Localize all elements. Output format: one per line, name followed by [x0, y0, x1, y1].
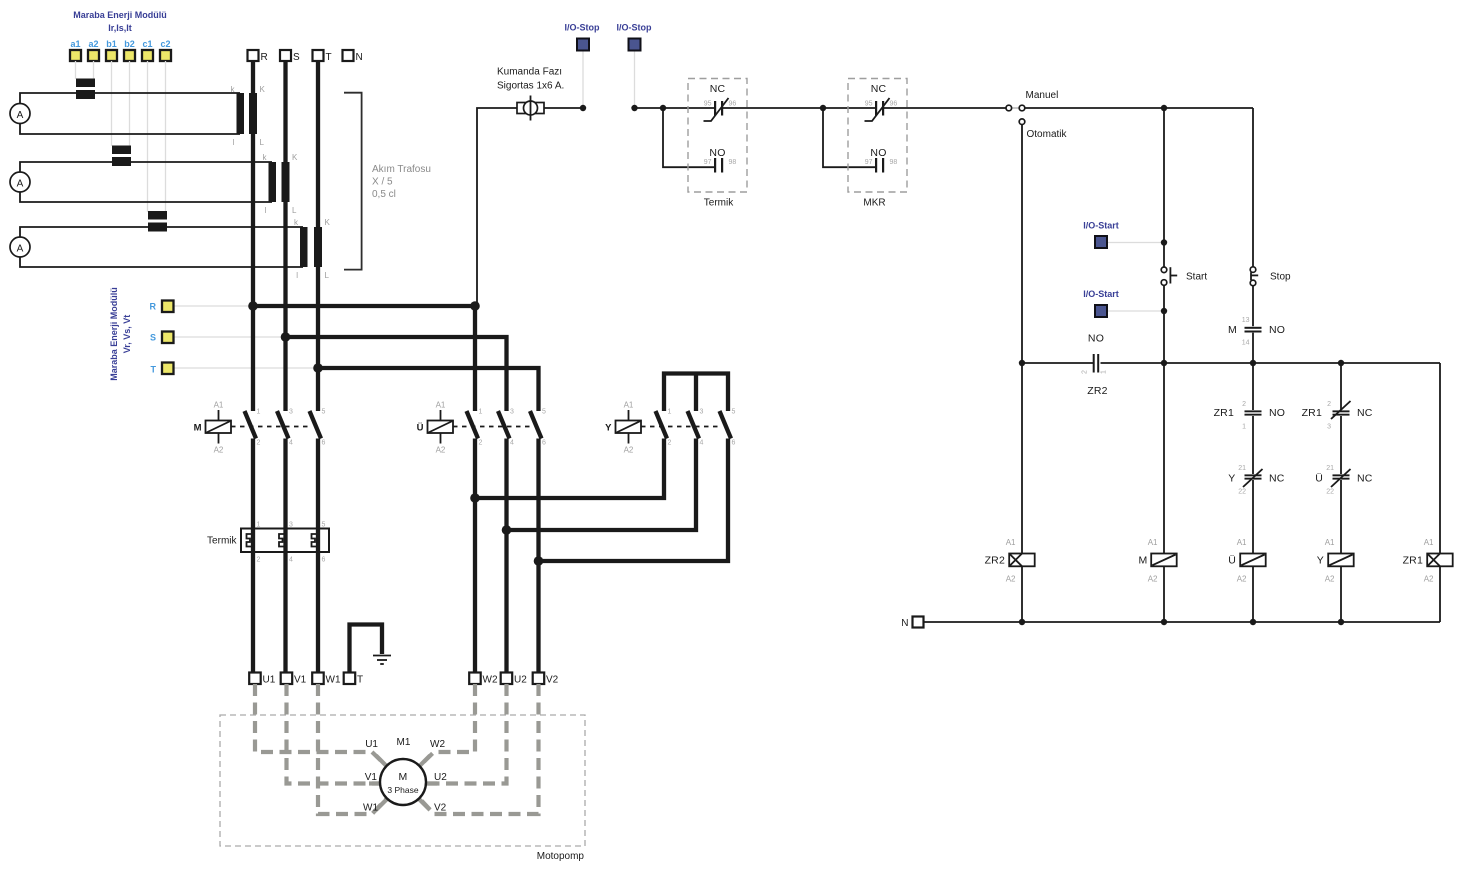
sense wire c2 — [165, 61, 167, 212]
svg-text:A2: A2 — [1237, 575, 1247, 584]
svg-text:A2: A2 — [436, 446, 446, 455]
svg-text:6: 6 — [732, 440, 736, 447]
svg-text:95: 95 — [865, 101, 873, 108]
svg-text:21: 21 — [1238, 465, 1246, 472]
svg-text:2: 2 — [257, 557, 261, 564]
node neutral junctions — [1019, 619, 1025, 625]
svg-text:I/O-Stop: I/O-Stop — [617, 23, 652, 33]
svg-text:0,5 cl: 0,5 cl — [372, 189, 396, 200]
terminal a1 — [70, 50, 81, 61]
terminal V1 — [281, 673, 293, 685]
wire otomatik down — [1021, 125, 1023, 364]
svg-text:6: 6 — [322, 440, 326, 447]
svg-text:3: 3 — [510, 409, 514, 416]
terminal U1 — [249, 673, 261, 685]
motor lead W1 — [318, 684, 387, 814]
motor M1 3 phase — [380, 759, 426, 805]
svg-text:T: T — [357, 675, 363, 686]
svg-text:1: 1 — [257, 409, 261, 416]
CT pickup bars loop2 — [112, 146, 131, 155]
svg-text:2: 2 — [668, 440, 672, 447]
terminal U2 — [501, 673, 513, 685]
svg-text:Manuel: Manuel — [1026, 90, 1059, 101]
node bus junctions — [1019, 360, 1025, 366]
svg-text:6: 6 — [542, 440, 546, 447]
node start branch top — [1161, 105, 1167, 111]
bracket akim trafosu — [344, 93, 362, 270]
svg-text:14: 14 — [1242, 340, 1250, 347]
mkr dashed box — [848, 79, 907, 193]
svg-text:2: 2 — [257, 440, 261, 447]
wire feed R to U contactor — [253, 306, 475, 411]
svg-text:V1: V1 — [365, 772, 378, 783]
svg-text:4: 4 — [289, 557, 293, 564]
terminal c2 — [160, 50, 171, 61]
node W2 link — [470, 493, 480, 503]
contactor Y pole 1-2 — [656, 411, 668, 439]
svg-text:3: 3 — [289, 409, 293, 416]
wire branch to termik NO — [663, 108, 714, 167]
svg-text:A1: A1 — [436, 401, 446, 410]
wire branch to mkr NO — [823, 108, 875, 167]
svg-text:2: 2 — [1242, 401, 1246, 408]
contactor U pole 5-6 — [530, 411, 542, 439]
svg-text:2: 2 — [479, 440, 483, 447]
svg-text:W2: W2 — [430, 739, 445, 750]
svg-text:MKR: MKR — [863, 198, 885, 209]
svg-text:Y: Y — [1228, 473, 1235, 485]
wire control bus — [1022, 362, 1093, 364]
svg-text:V1: V1 — [294, 675, 307, 686]
svg-text:c2: c2 — [160, 39, 170, 49]
svg-text:X / 5: X / 5 — [372, 177, 393, 188]
column stop: ZR1 NO contact — [1252, 363, 1254, 410]
svg-text:b1: b1 — [106, 39, 117, 49]
svg-text:A1: A1 — [214, 401, 224, 410]
svg-text:2: 2 — [1327, 401, 1331, 408]
svg-text:K: K — [260, 85, 266, 94]
svg-text:NO: NO — [1269, 407, 1285, 419]
svg-text:ZR1: ZR1 — [1214, 407, 1234, 419]
svg-text:A1: A1 — [624, 401, 634, 410]
svg-text:ZR2: ZR2 — [1087, 385, 1107, 397]
svg-text:A2: A2 — [1006, 575, 1016, 584]
contact Y NC 21-22 — [1252, 416, 1254, 474]
svg-text:A1: A1 — [1006, 538, 1016, 547]
svg-text:22: 22 — [1238, 489, 1246, 496]
svg-text:NC: NC — [710, 83, 726, 95]
wire phase S vertical — [283, 61, 287, 411]
svg-text:K: K — [292, 153, 298, 162]
wire start branch — [1163, 108, 1165, 267]
svg-text:W1: W1 — [326, 675, 341, 686]
svg-text:95: 95 — [704, 101, 712, 108]
svg-text:NC: NC — [1269, 473, 1285, 485]
svg-text:Vr, Vs, Vt: Vr, Vs, Vt — [122, 315, 132, 354]
svg-text:T: T — [151, 365, 157, 375]
svg-text:A2: A2 — [1148, 575, 1158, 584]
column ZR1 coil right edge — [1439, 363, 1441, 554]
column U coil — [1252, 480, 1254, 554]
motor lead V2 — [420, 684, 539, 814]
svg-text:1: 1 — [479, 409, 483, 416]
svg-text:96: 96 — [729, 101, 737, 108]
svg-text:T: T — [326, 52, 332, 63]
wire ammeter loop 2 — [20, 162, 272, 202]
node V2 link — [534, 556, 544, 566]
terminal a2 — [88, 50, 99, 61]
terminal S — [280, 50, 291, 61]
svg-text:NO: NO — [1088, 333, 1104, 345]
svg-text:c1: c1 — [142, 39, 152, 49]
svg-text:R: R — [261, 52, 268, 63]
column 4: ZR1 NC contact — [1340, 363, 1342, 410]
node R tap — [248, 301, 258, 311]
svg-text:A: A — [17, 244, 24, 255]
svg-text:97: 97 — [865, 159, 873, 166]
svg-text:W1: W1 — [363, 803, 378, 814]
svg-text:4: 4 — [510, 440, 514, 447]
svg-text:A1: A1 — [1424, 538, 1434, 547]
terminal W1 — [312, 673, 324, 685]
svg-text:Motopomp: Motopomp — [537, 851, 585, 862]
svg-text:NC: NC — [871, 83, 887, 95]
svg-text:NO: NO — [709, 147, 725, 159]
svg-text:a2: a2 — [88, 39, 98, 49]
wire T neutral to ground — [350, 625, 383, 673]
ammeter A phase S — [10, 172, 30, 192]
svg-text:M: M — [1139, 555, 1148, 567]
svg-text:Maraba Enerji Modülü: Maraba Enerji Modülü — [73, 10, 167, 20]
svg-text:NO: NO — [870, 147, 886, 159]
svg-text:a1: a1 — [70, 39, 80, 49]
current transformer S bars — [269, 162, 277, 202]
contactor M pole 3-4 — [277, 411, 289, 439]
svg-text:Ü: Ü — [417, 423, 424, 434]
node U2 link — [502, 525, 512, 535]
svg-text:A1: A1 — [1148, 538, 1158, 547]
contact M NO 13-14 — [1245, 327, 1262, 329]
svg-text:Start: Start — [1186, 272, 1207, 283]
push button Stop — [1250, 267, 1256, 273]
svg-text:I/O-Stop: I/O-Stop — [565, 23, 600, 33]
wire Y output links — [475, 439, 664, 499]
svg-text:Otomatik: Otomatik — [1027, 129, 1068, 140]
wire phase T vertical — [316, 61, 320, 411]
ground — [373, 655, 391, 657]
svg-text:l: l — [296, 271, 298, 280]
svg-text:97: 97 — [704, 159, 712, 166]
terminal T — [313, 50, 324, 61]
contactor U pole 3-4 — [498, 411, 510, 439]
svg-text:Y: Y — [605, 423, 612, 434]
svg-text:S: S — [150, 333, 156, 343]
svg-text:A2: A2 — [624, 446, 634, 455]
svg-text:V2: V2 — [434, 803, 447, 814]
svg-text:A: A — [17, 110, 24, 121]
column Y coil — [1340, 480, 1342, 554]
ammeter A phase R — [10, 104, 30, 124]
svg-text:Termik: Termik — [704, 198, 734, 209]
svg-text:U2: U2 — [514, 675, 527, 686]
svg-text:W2: W2 — [483, 675, 498, 686]
node T tap — [313, 363, 323, 373]
svg-text:A2: A2 — [1325, 575, 1335, 584]
svg-text:Kumanda Fazı: Kumanda Fazı — [497, 67, 562, 78]
svg-text:M: M — [399, 771, 408, 783]
wire feed T to U contactor — [318, 368, 539, 411]
svg-text:Sigortas 1x6 A.: Sigortas 1x6 A. — [497, 81, 564, 92]
svg-text:3: 3 — [700, 409, 704, 416]
svg-text:A: A — [17, 179, 24, 190]
motopomp enclosure — [220, 715, 585, 846]
current transformer R bars — [237, 93, 245, 134]
svg-text:N: N — [901, 618, 908, 629]
svg-text:NC: NC — [1357, 473, 1373, 485]
svg-text:4: 4 — [289, 440, 293, 447]
svg-text:ZR2: ZR2 — [985, 555, 1005, 567]
wire Y star bridge bus — [664, 374, 728, 412]
wire control line — [635, 107, 715, 109]
svg-text:L: L — [260, 138, 265, 147]
sense wire Vr — [174, 305, 254, 307]
sense wire a2 — [93, 61, 95, 79]
svg-text:K: K — [325, 218, 331, 227]
svg-text:Termik: Termik — [207, 536, 237, 547]
terminal N — [343, 50, 354, 61]
svg-text:4: 4 — [700, 440, 704, 447]
terminal c1 — [142, 50, 153, 61]
column ZR2 coil — [1021, 363, 1023, 554]
svg-text:98: 98 — [729, 159, 737, 166]
current transformer T bars — [300, 227, 308, 267]
terminal R — [248, 50, 259, 61]
wire stop branch — [1252, 108, 1254, 267]
svg-text:6: 6 — [322, 557, 326, 564]
svg-text:21: 21 — [1326, 465, 1334, 472]
contactor U pole 1-2 — [467, 411, 479, 439]
svg-text:5: 5 — [542, 409, 546, 416]
svg-text:1: 1 — [668, 409, 672, 416]
svg-text:2: 2 — [1082, 370, 1089, 374]
svg-text:k: k — [294, 218, 299, 227]
svg-text:l: l — [233, 138, 235, 147]
svg-text:S: S — [293, 52, 300, 63]
svg-text:I/O-Start: I/O-Start — [1083, 221, 1119, 231]
svg-text:3 Phase: 3 Phase — [387, 785, 418, 795]
svg-text:U2: U2 — [434, 772, 447, 783]
svg-text:U1: U1 — [365, 739, 378, 750]
svg-text:M: M — [194, 423, 202, 434]
svg-text:N: N — [356, 52, 363, 63]
svg-text:ZR1: ZR1 — [1302, 407, 1322, 419]
node mkr branch — [820, 105, 826, 111]
terminal b1 — [106, 50, 117, 61]
svg-text:Maraba Enerji Modülü: Maraba Enerji Modülü — [109, 287, 119, 381]
svg-text:ZR1: ZR1 — [1403, 555, 1423, 567]
wire neutral line — [924, 621, 1441, 623]
motor lead W2 — [420, 684, 476, 766]
sense wire b1 — [111, 61, 113, 146]
CT pickup bars loop3 — [148, 211, 167, 220]
wire control tap from R feed — [477, 108, 517, 306]
svg-text:b2: b2 — [124, 39, 135, 49]
motor lead end stubs — [369, 756, 437, 811]
sense wire Vt — [174, 367, 319, 369]
svg-text:R: R — [150, 302, 157, 312]
svg-text:5: 5 — [732, 409, 736, 416]
wire phase R vertical — [251, 61, 255, 411]
svg-text:L: L — [325, 271, 330, 280]
svg-text:Ü: Ü — [1315, 473, 1323, 485]
terminal T ground — [344, 673, 356, 685]
svg-text:NC: NC — [1357, 407, 1373, 419]
terminal W2 — [469, 673, 481, 685]
column M coil — [1163, 363, 1165, 554]
svg-text:A2: A2 — [214, 446, 224, 455]
svg-text:k: k — [263, 153, 268, 162]
svg-text:V2: V2 — [546, 675, 559, 686]
svg-text:A2: A2 — [1424, 575, 1434, 584]
motor lead U2 — [426, 684, 507, 784]
CT pickup bars loop1 — [76, 79, 95, 88]
svg-text:Ü: Ü — [1228, 555, 1236, 567]
contactor M pole 5-6 — [310, 411, 322, 439]
wire fuse to stop node — [544, 107, 583, 109]
contact U NC 21-22 — [1340, 416, 1342, 474]
sense wire c1 — [147, 61, 149, 212]
svg-text:Y: Y — [1317, 555, 1324, 567]
wire feed S to U contactor — [286, 337, 507, 411]
svg-text:1: 1 — [257, 522, 261, 529]
svg-text:A1: A1 — [1237, 538, 1247, 547]
sense wire a1 — [75, 61, 77, 79]
svg-text:A1: A1 — [1325, 538, 1335, 547]
svg-text:1: 1 — [1242, 424, 1246, 431]
svg-text:5: 5 — [322, 522, 326, 529]
svg-text:L: L — [292, 206, 297, 215]
contactor Y pole 3-4 — [688, 411, 700, 439]
svg-text:22: 22 — [1326, 489, 1334, 496]
svg-text:l: l — [265, 206, 267, 215]
terminal V2 — [533, 673, 545, 685]
termik dashed box — [688, 79, 747, 193]
wire manuel line to stop branch — [1025, 107, 1253, 109]
push button Start — [1161, 267, 1167, 273]
wire U outputs to terminals — [473, 439, 477, 673]
node termik branch — [660, 105, 666, 111]
svg-text:3: 3 — [1327, 424, 1331, 431]
wire ammeter loop 1 — [20, 93, 240, 134]
sense wire b2 — [129, 61, 131, 146]
node S tap — [281, 332, 291, 342]
contactor Y pole 5-6 — [720, 411, 732, 439]
svg-text:13: 13 — [1242, 317, 1250, 324]
terminal b2 — [124, 50, 135, 61]
svg-text:I/O-Start: I/O-Start — [1083, 289, 1119, 299]
svg-text:5: 5 — [322, 409, 326, 416]
sense wire Vs — [174, 336, 286, 338]
svg-text:3: 3 — [289, 522, 293, 529]
svg-text:NO: NO — [1269, 324, 1285, 336]
wire ammeter loop 3 — [20, 227, 303, 267]
svg-text:Ir,Is,It: Ir,Is,It — [108, 23, 132, 33]
motor lead U1 — [255, 684, 387, 766]
contactor M pole 1-2 — [245, 411, 257, 439]
ammeter A phase T — [10, 237, 30, 257]
svg-text:1: 1 — [1101, 370, 1108, 374]
svg-text:96: 96 — [890, 101, 898, 108]
motor lead V1 — [287, 684, 381, 784]
svg-text:M: M — [1228, 324, 1237, 336]
svg-text:U1: U1 — [263, 675, 276, 686]
node control tap on R feed — [470, 301, 480, 311]
svg-text:Stop: Stop — [1270, 272, 1291, 283]
svg-text:Akım Trafosu: Akım Trafosu — [372, 164, 431, 175]
svg-text:98: 98 — [890, 159, 898, 166]
svg-text:M1: M1 — [397, 737, 411, 748]
